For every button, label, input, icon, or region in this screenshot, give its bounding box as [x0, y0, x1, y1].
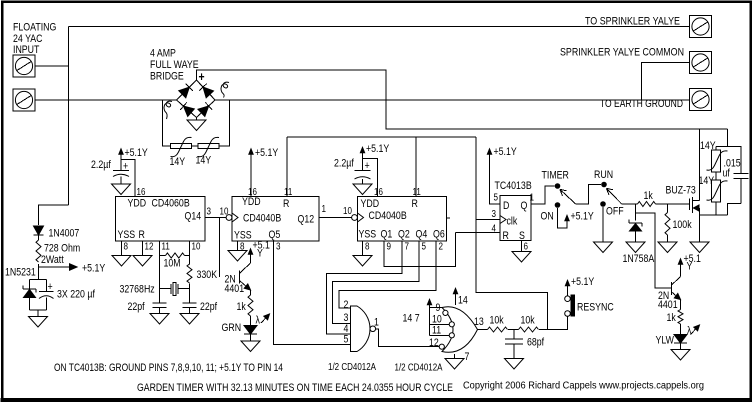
resistor R9 100k — [667, 204, 669, 213]
varistor MOV3 14V — [715, 147, 717, 151]
diode D5 1N4007 — [34, 226, 44, 235]
svg-text:+5.1Y: +5.1Y — [255, 147, 279, 159]
wire U3 pin5 to gate input 3 — [333, 241, 420, 324]
diode bridge D4 bottom-right — [195, 98, 216, 119]
transistor Q2 2N4401 — [671, 282, 673, 295]
border bottom thick bar — [1, 398, 752, 402]
node run OFF throw — [600, 201, 606, 207]
svg-text:R: R — [139, 229, 145, 241]
IC U2 CD4040B box — [232, 197, 319, 242]
svg-text:1/2 CD4012A: 1/2 CD4012A — [328, 362, 376, 373]
node timer pole — [555, 183, 561, 189]
resistor R2 10M — [160, 255, 166, 257]
svg-text:GRN: GRN — [222, 322, 242, 334]
svg-text:13: 13 — [474, 316, 484, 328]
varistor MOV1 14V — [171, 144, 192, 149]
svg-text:2.2µf: 2.2µf — [334, 158, 355, 170]
wire R4 to LED1 — [250, 316, 252, 326]
node base feed to Q2 — [636, 213, 672, 288]
svg-text:Q4: Q4 — [416, 229, 428, 241]
svg-text:λ: λ — [687, 325, 692, 337]
svg-text:68pf: 68pf — [527, 337, 545, 349]
svg-text:9: 9 — [387, 242, 392, 253]
wire ON throw to +5.1V — [558, 208, 568, 228]
IC U5 TC4013B box — [500, 196, 531, 241]
wire M1 source to ground — [699, 208, 701, 242]
wire J4 riser to AC2 line — [642, 63, 690, 101]
svg-text:5: 5 — [344, 334, 349, 346]
svg-text:Copyright 2006 Richard Cappels: Copyright 2006 Richard Cappels www.proje… — [463, 381, 704, 392]
wire varistor drop left — [163, 100, 171, 146]
svg-text:TIMER: TIMER — [542, 170, 569, 182]
svg-text:1: 1 — [322, 204, 327, 215]
clock input bubble U2 pin10 — [226, 215, 232, 221]
svg-text:2: 2 — [439, 242, 444, 253]
svg-text:10M: 10M — [164, 258, 181, 270]
svg-text:10: 10 — [343, 206, 352, 217]
capacitor C5 2.2uf — [355, 170, 371, 172]
svg-text:Y: Y — [257, 248, 263, 260]
IC U3 CD4040B box — [358, 197, 447, 242]
wire U1 Q14 to U2 clock — [205, 217, 226, 219]
svg-text:2Watt: 2Watt — [41, 254, 64, 266]
resistor R6 10k — [488, 327, 508, 332]
svg-text:11: 11 — [432, 325, 441, 337]
wire U5 clk pin3 — [476, 219, 500, 221]
squiggle AC lead left — [164, 101, 172, 119]
ground U2 pin8 — [228, 251, 247, 262]
zener D8 1N758A — [635, 204, 637, 221]
wire U5 S pin6 ground — [521, 241, 523, 252]
svg-text:10: 10 — [192, 242, 201, 253]
capacitor C4 22pf right — [182, 302, 196, 304]
wire U5 Q pin1 to timer pole — [531, 186, 555, 204]
op-amp U1 CD4060B box — [116, 197, 206, 242]
ground D8 — [626, 242, 645, 253]
svg-text:+5.1Y: +5.1Y — [82, 263, 106, 275]
svg-text:14 7: 14 7 — [403, 313, 420, 325]
svg-text:11: 11 — [162, 242, 171, 253]
svg-text:22pf: 22pf — [200, 301, 218, 313]
svg-text:7: 7 — [405, 242, 410, 253]
terminal J2 (24VAC input bottom) — [13, 89, 35, 111]
terminal J3 (to sprinkler valve) — [690, 16, 712, 38]
svg-text:YDD: YDD — [128, 198, 147, 210]
varistor MOV2 14V — [198, 144, 219, 149]
wire R7 to resync node — [539, 316, 568, 329]
switch S2 RUN arm — [606, 188, 621, 204]
terminal J5 (to earth ground) — [690, 89, 712, 111]
svg-text:12: 12 — [145, 242, 154, 253]
diode bridge D2 top-right — [195, 79, 216, 100]
svg-text:3: 3 — [207, 207, 212, 218]
wire U3 pin7 to gate input 4 — [327, 241, 403, 334]
wire U1 pin10 column — [189, 241, 191, 265]
svg-text:9: 9 — [436, 302, 441, 314]
power arrow +5.1V for U1 — [120, 150, 122, 171]
svg-text:1N4007: 1N4007 — [49, 228, 80, 240]
wire clk net riser — [476, 137, 548, 330]
svg-text:ON TC4013B: GROUND PINS 7,8,9,: ON TC4013B: GROUND PINS 7,8,9,10, 11; +5… — [54, 362, 283, 374]
resistor R8 1k gate — [638, 202, 656, 207]
ground U1 pin8 — [112, 256, 131, 267]
wire U1 pin8 ground — [121, 241, 123, 256]
wire run arm to gate drive — [622, 203, 638, 205]
svg-text:14Y: 14Y — [196, 155, 212, 167]
svg-text:100k: 100k — [673, 219, 692, 231]
switch S3 RESYNC pushbutton — [565, 311, 571, 317]
svg-text:+5.1Y: +5.1Y — [571, 211, 595, 223]
svg-text:Q5: Q5 — [269, 229, 281, 241]
svg-text:R: R — [503, 230, 509, 242]
input bubbles U4B — [443, 310, 448, 315]
svg-text:FLOATING: FLOATING — [13, 22, 56, 34]
switch S1 TIMER arm — [560, 189, 576, 204]
wire R8 to MOSFET gate — [656, 203, 690, 205]
svg-text:CD4040B: CD4040B — [243, 213, 281, 225]
power arrow +5.1V Q1 collector — [250, 250, 252, 263]
svg-text:Q14: Q14 — [185, 211, 202, 223]
wire U3 pin16 feed — [363, 159, 378, 197]
svg-text:CD4060B: CD4060B — [152, 198, 190, 210]
svg-text:1k: 1k — [667, 312, 677, 324]
svg-text:5: 5 — [494, 193, 499, 204]
svg-text:YDD: YDD — [361, 198, 380, 210]
wire Q2 emitter to R10 — [680, 300, 682, 310]
svg-text:Y: Y — [687, 261, 693, 273]
op-amp U4A 1/2 CD4012A NAND — [351, 306, 371, 352]
power arrow RESYNC — [567, 282, 569, 296]
terminal J4 (sprinkler valve common) — [690, 52, 712, 74]
svg-text:12: 12 — [429, 337, 439, 349]
svg-text:8: 8 — [124, 242, 129, 253]
wire bridge plus node to top rail — [197, 70, 728, 129]
wire U3 pin9 to reset corner — [384, 233, 456, 267]
svg-text:D: D — [503, 200, 509, 212]
ground LED2 — [671, 350, 690, 361]
crystal X1 32768Hz — [160, 288, 172, 290]
wire U1 pin11 column — [159, 241, 161, 303]
svg-text:1/2 CD4012A: 1/2 CD4012A — [395, 363, 443, 374]
capacitor C3 22pf left — [152, 302, 166, 304]
wire snubber top corner — [728, 129, 742, 174]
wire bridge diamond edges — [177, 80, 216, 118]
svg-text:Q2: Q2 — [398, 229, 410, 241]
svg-text:8: 8 — [365, 242, 370, 253]
resistor R3 330K — [187, 264, 192, 283]
wire U3 pin11 reset riser — [415, 137, 417, 197]
wire U1 pin16 feed — [121, 160, 135, 197]
svg-text:+: + — [365, 160, 370, 172]
svg-text:4 AMP: 4 AMP — [150, 48, 176, 60]
svg-text:22pf: 22pf — [128, 301, 146, 313]
svg-text:5: 5 — [422, 242, 427, 253]
svg-text:3: 3 — [276, 242, 281, 253]
svg-text:INPUT: INPUT — [13, 44, 40, 56]
svg-text:14: 14 — [458, 295, 468, 307]
transistor M1 BUZ-73 MOSFET — [689, 199, 691, 211]
svg-text:Q1: Q1 — [381, 229, 393, 241]
svg-text:3X 220 µf: 3X 220 µf — [57, 289, 96, 301]
LED D7 GRN — [244, 326, 257, 335]
svg-text:2.2µf: 2.2µf — [91, 159, 112, 171]
node timer ON throw — [555, 202, 561, 208]
svg-text:10k: 10k — [490, 315, 505, 327]
wire U5 R pin4 — [456, 232, 501, 234]
svg-text:YLW: YLW — [656, 335, 675, 347]
wire U2 pin8 ground — [237, 241, 239, 251]
svg-text:YDD: YDD — [242, 196, 261, 208]
svg-text:OFF: OFF — [606, 206, 624, 218]
ground C4 — [180, 314, 199, 325]
wire OFF throw to ground — [602, 207, 604, 242]
zener D6 1N5231 — [23, 286, 36, 298]
svg-text:4: 4 — [492, 224, 497, 235]
transistor Q1 2N4401 — [238, 271, 240, 284]
svg-text:+5.1Y: +5.1Y — [494, 146, 518, 158]
ground U3 pin8 — [353, 256, 372, 267]
svg-text:RESYNC: RESYNC — [577, 302, 614, 314]
svg-text:3: 3 — [492, 209, 497, 220]
svg-text:330K: 330K — [197, 269, 218, 281]
capacitor C2 2.2uf — [113, 170, 129, 172]
squiggle AC lead right — [221, 82, 229, 97]
svg-text:+: + — [48, 281, 53, 293]
svg-text:7: 7 — [465, 351, 470, 363]
node run pole — [601, 182, 607, 188]
wire left riser (AC1 vertical) — [68, 27, 70, 206]
svg-text:R: R — [283, 198, 289, 210]
svg-text:10: 10 — [220, 207, 229, 218]
wire M1 drain to rail — [699, 129, 701, 201]
power arrow U4B tied inputs — [429, 305, 431, 308]
power arrow +5.1V for U3 — [362, 149, 364, 171]
svg-text:λ: λ — [256, 315, 261, 327]
wire +5.1V tap arrow — [39, 266, 71, 268]
ground C6 — [505, 359, 524, 370]
power arrow +5.1 Q2 collector — [680, 260, 682, 277]
wire R6 to R7 — [508, 329, 519, 331]
wire U2 Q12 to U3 clock — [319, 217, 352, 219]
wire R10 to LED2 — [680, 324, 682, 335]
wire resistor to 5.1V node — [38, 264, 40, 280]
ground C2 — [112, 184, 131, 195]
wire bridge right node to J5 — [215, 99, 690, 101]
wire U3 pin1 nub — [447, 217, 451, 219]
svg-text:BRIDGE: BRIDGE — [150, 71, 184, 83]
varistor MOV4 14V — [712, 180, 721, 202]
svg-text:YSS: YSS — [234, 230, 252, 242]
capacitor C6 68pf — [513, 330, 515, 340]
svg-text:GARDEN TIMER WITH 32.13 MINUTE: GARDEN TIMER WITH 32.13 MINUTES ON TIME … — [137, 382, 453, 394]
ground supply filter — [37, 310, 39, 317]
wire U4B output to R6 — [478, 329, 488, 331]
wire top AC1 line to J3 — [69, 26, 690, 28]
svg-text:YSS: YSS — [118, 229, 136, 241]
wire timer arm to run pole — [576, 185, 602, 205]
wire J1 to vertical riser — [35, 65, 69, 67]
ground R9 — [658, 242, 677, 253]
wire snubber bottom — [700, 202, 717, 215]
svg-text:+: + — [123, 161, 128, 173]
svg-text:1k: 1k — [644, 190, 654, 202]
ground bridge minus node — [196, 118, 198, 121]
svg-text:BUZ-73: BUZ-73 — [666, 185, 696, 197]
resistor R7 10k — [519, 327, 539, 332]
svg-text:+: + — [199, 69, 205, 84]
diode bridge D3 bottom-left — [176, 98, 198, 119]
ground C3 — [150, 314, 169, 325]
LED D9 YLW — [674, 335, 687, 344]
svg-text:RUN: RUN — [594, 169, 613, 181]
svg-text:Q6: Q6 — [433, 229, 445, 241]
svg-text:10k: 10k — [521, 315, 536, 327]
ground U1 pin12 — [133, 256, 152, 267]
wire U1 pin12 ground — [142, 241, 144, 256]
svg-text:+5.1Y: +5.1Y — [571, 276, 595, 288]
terminal J1 (24VAC input top) — [13, 55, 35, 77]
svg-text:1k: 1k — [237, 301, 247, 313]
wire U5 D pin5 to +5.1V — [490, 150, 501, 204]
svg-text:14Y: 14Y — [699, 175, 715, 187]
diode bridge D1 top-left — [176, 79, 197, 100]
wire U4B tied inputs bracket — [430, 308, 443, 336]
svg-text:14Y: 14Y — [170, 156, 186, 168]
svg-text:TO SPRINKLER YALYE: TO SPRINKLER YALYE — [585, 16, 680, 28]
ground OFF — [594, 242, 613, 253]
svg-text:+5.1Y: +5.1Y — [125, 147, 149, 159]
wire U2 pin3 Q5 to gate input 5 — [274, 241, 351, 345]
resistor R4 1k — [248, 295, 253, 316]
resistor R1 728 Ohm 2Watt — [36, 240, 41, 262]
ground U5 S — [512, 252, 531, 263]
wire U3 pin2 to gate input 2 — [339, 241, 436, 308]
svg-text:FULL WAYE: FULL WAYE — [150, 59, 199, 71]
capacitor C7 .015uf — [734, 173, 749, 175]
svg-text:728 Ohm: 728 Ohm — [44, 243, 80, 255]
wire U3 pin8 ground — [362, 241, 364, 256]
svg-text:6: 6 — [524, 242, 529, 253]
ground M1 source — [690, 242, 709, 253]
svg-text:Q: Q — [521, 200, 528, 212]
ground LED1 — [241, 341, 260, 352]
svg-text:4401: 4401 — [658, 299, 678, 311]
svg-text:+5.1Y: +5.1Y — [366, 143, 390, 155]
wire reset rail to clk column — [287, 136, 476, 138]
ground C5 — [353, 184, 372, 195]
power arrow +5.1V for U2 — [250, 150, 252, 197]
svg-text:2: 2 — [344, 299, 349, 311]
svg-text:YSS: YSS — [359, 229, 377, 241]
wire AC1 riser jog to supply column — [39, 205, 69, 225]
wire varistor drop right — [219, 100, 230, 146]
svg-text:CD4040B: CD4040B — [369, 210, 407, 222]
node Q14 branch to Q1 base — [219, 218, 221, 278]
svg-text:14Y: 14Y — [700, 140, 716, 152]
clock input bubble U3 pin10 — [352, 215, 358, 221]
wire J2 to bridge left node — [35, 99, 177, 101]
svg-text:uf: uf — [723, 168, 731, 180]
resistor R10 1k — [678, 310, 683, 325]
wire U4A output to U4B input 12 — [376, 329, 440, 347]
svg-text:1: 1 — [374, 317, 379, 329]
ground pin 7 stub U4B — [454, 354, 456, 359]
wire U2 pin11 reset riser — [286, 137, 288, 197]
wire between varistors — [192, 145, 199, 147]
wire Q1 emitter to R4 — [250, 290, 252, 295]
svg-text:32768Hz: 32768Hz — [120, 284, 155, 296]
svg-text:S: S — [519, 230, 525, 242]
svg-text:TC4013B: TC4013B — [495, 180, 532, 192]
svg-text:SPRINKLER YALYE COMMON: SPRINKLER YALYE COMMON — [560, 47, 684, 59]
svg-text:1: 1 — [530, 193, 535, 204]
svg-text:clk: clk — [507, 216, 518, 228]
svg-text:ON: ON — [541, 211, 554, 223]
wire between MOV3 MOV4 — [715, 172, 717, 180]
op-amp U4B 1/2 CD4012A NAND — [442, 307, 478, 353]
power pin 14 stub U4B — [455, 290, 457, 305]
svg-text:R: R — [412, 198, 418, 210]
wire zener cap parallel rect — [30, 279, 47, 281]
svg-text:Q12: Q12 — [298, 214, 315, 226]
svg-text:4401: 4401 — [225, 283, 245, 295]
svg-text:1N758A: 1N758A — [623, 253, 655, 265]
svg-text:1N5231: 1N5231 — [5, 267, 36, 279]
capacitor C1 3X 220uf — [39, 291, 54, 293]
